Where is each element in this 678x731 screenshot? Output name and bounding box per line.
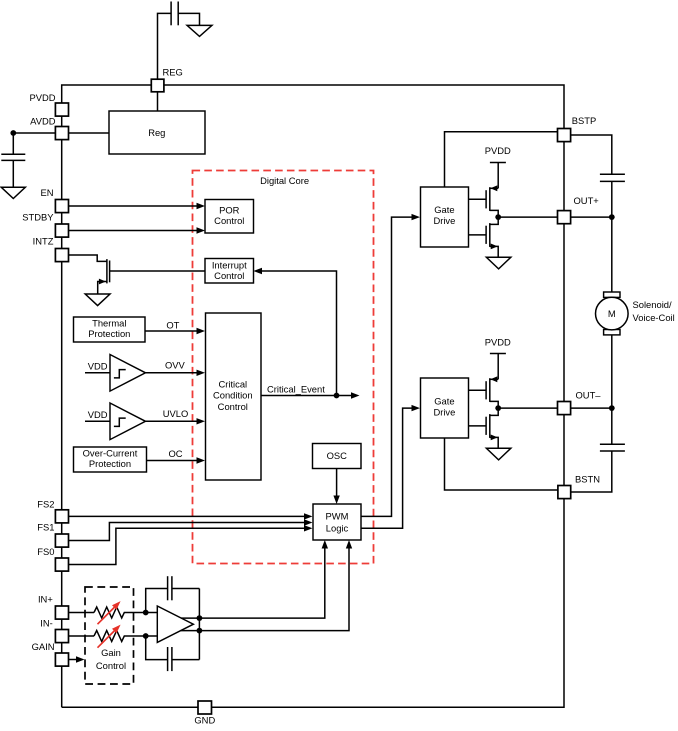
node AVDD bypass junction — [10, 130, 16, 136]
transistor Q1 open-drain INTZ — [69, 255, 110, 294]
block PWM Logic — [313, 504, 361, 540]
pin INTZ — [33, 235, 69, 261]
pin EN — [40, 187, 68, 213]
wire bridge to OUT- pin — [498, 407, 612, 409]
gain control dashed boundary — [85, 587, 134, 684]
svg-text:Critical: Critical — [218, 379, 247, 390]
capacitor C7 bootstrap BSTP to OUT+ — [571, 135, 625, 217]
svg-text:M: M — [608, 308, 616, 319]
svg-text:AVDD: AVDD — [30, 116, 56, 127]
svg-text:BSTN: BSTN — [575, 474, 600, 485]
node Critical_Event junction — [334, 393, 340, 399]
capacitor C3 feedback top — [146, 576, 200, 612]
pin IN+ — [38, 594, 69, 619]
op-amp U5 differential input amp — [146, 606, 194, 642]
ground for high-side bridge — [486, 257, 510, 269]
pin FS2 — [37, 498, 68, 523]
block Reg (regulator) — [109, 111, 205, 154]
svg-text:Gate: Gate — [434, 204, 454, 215]
wire right rail OUT- to BSTN — [563, 415, 565, 486]
pin REG — [151, 67, 183, 92]
ground for C1 — [187, 25, 212, 36]
ground for C2 — [1, 187, 25, 198]
svg-text:BSTP: BSTP — [572, 115, 597, 126]
wire op-amp output bottom to PWM Logic — [181, 540, 353, 631]
svg-text:OUT+: OUT+ — [574, 195, 600, 206]
svg-text:Gain: Gain — [101, 647, 121, 658]
svg-text:EN: EN — [40, 187, 53, 198]
ground for Q1 — [85, 294, 110, 306]
transistor Q5 low-side bottom FET — [469, 408, 499, 448]
wire right rail BSTP to OUT+ — [563, 142, 565, 211]
block Gate Drive (low side, U4) — [421, 378, 469, 438]
node OUT+ bridge junction — [495, 214, 501, 220]
block Interrupt Control — [205, 259, 254, 284]
svg-text:OT: OT — [166, 320, 179, 331]
svg-text:Condition: Condition — [213, 389, 253, 400]
node OUT- bridge junction — [495, 405, 501, 411]
wire PWM Logic to Gate Drive high side — [361, 214, 420, 517]
wire main left rail, top rail and drop to BSTP — [62, 85, 564, 707]
svg-text:Control: Control — [214, 270, 244, 281]
svg-text:POR: POR — [219, 205, 240, 216]
capacitor C8 bootstrap OUT- to BSTN — [571, 408, 625, 492]
wire UVLO to CCC — [146, 408, 206, 424]
svg-text:OVV: OVV — [165, 360, 186, 371]
wire OC Over-Current Protection to CCC — [147, 448, 206, 464]
svg-text:IN-: IN- — [40, 618, 53, 629]
wire Critical_Event from CCC — [261, 384, 360, 399]
svg-text:PWM: PWM — [326, 511, 349, 522]
block Gate Drive (high side, U3) — [421, 187, 469, 247]
digital core dashed boundary — [193, 171, 374, 564]
svg-text:INTZ: INTZ — [33, 235, 54, 246]
svg-text:REG: REG — [163, 67, 183, 78]
pin PVDD — [29, 92, 68, 116]
svg-text:UVLO: UVLO — [163, 408, 189, 419]
svg-text:OSC: OSC — [327, 450, 348, 461]
node output top junction — [197, 615, 203, 621]
capacitor C4 feedback bottom — [146, 636, 200, 671]
motor M solenoid/voice-coil — [596, 217, 675, 408]
wire Interrupt Control to Q1 gate — [110, 270, 205, 272]
pin BSTP — [558, 115, 597, 142]
svg-text:Control: Control — [218, 401, 248, 412]
svg-text:Drive: Drive — [433, 406, 455, 417]
pin BSTN — [558, 474, 600, 499]
svg-text:Critical_Event: Critical_Event — [267, 384, 325, 395]
node OUT+ motor junction — [609, 214, 615, 220]
svg-text:FS0: FS0 — [37, 546, 54, 557]
wire AVDD node to Reg block — [13, 132, 109, 134]
node output bottom junction — [197, 628, 203, 634]
svg-text:Digital Core: Digital Core — [260, 175, 309, 186]
comparator U1 OVV — [85, 355, 146, 392]
wire OSC to PWM Logic — [333, 469, 339, 505]
wire bridge to OUT+ pin — [498, 216, 612, 218]
svg-text:Control: Control — [214, 215, 244, 226]
pin AVDD — [30, 116, 68, 140]
wire STDBY to POR Control — [69, 227, 206, 233]
svg-text:Gate: Gate — [434, 395, 454, 406]
pin FS0 — [37, 546, 68, 571]
svg-text:Voice-Coil: Voice-Coil — [633, 312, 675, 323]
resistor R1 variable (IN+) — [69, 601, 146, 624]
svg-text:Drive: Drive — [433, 215, 455, 226]
svg-text:PVDD: PVDD — [29, 92, 55, 103]
power PVDD supply for low-side bridge — [485, 336, 511, 379]
svg-text:GND: GND — [194, 715, 215, 726]
node IN+ input junction — [143, 610, 149, 616]
wire REG pin to Reg block — [157, 92, 159, 111]
svg-text:Control: Control — [96, 660, 126, 671]
resistor R2 variable (IN-) — [69, 625, 146, 648]
svg-text:Over-Current: Over-Current — [83, 447, 138, 458]
svg-text:FS2: FS2 — [37, 498, 54, 509]
svg-text:OC: OC — [168, 448, 182, 459]
svg-text:STDBY: STDBY — [22, 211, 54, 222]
pin STDBY — [22, 211, 68, 237]
wire FS2 to PWM Logic — [69, 513, 313, 519]
svg-text:PVDD: PVDD — [485, 145, 511, 156]
svg-text:Thermal: Thermal — [92, 317, 126, 328]
comparator U2 UVLO — [85, 403, 146, 440]
wire EN to POR Control — [69, 203, 206, 209]
wire bottom rail from left rail through GND to right rail — [62, 499, 564, 708]
wire Gate Drive high side to BSTP — [445, 132, 558, 187]
pin FS1 — [37, 521, 68, 547]
wire op-amp output top to PWM Logic — [181, 540, 328, 618]
svg-text:VDD: VDD — [88, 409, 108, 420]
svg-text:Protection: Protection — [89, 458, 131, 469]
capacitor C1 at REG pin — [158, 2, 200, 80]
pin OUT+ — [558, 195, 600, 224]
wire OT Thermal Protection to CCC — [145, 320, 205, 335]
svg-text:GAIN: GAIN — [32, 641, 55, 652]
wire right rail OUT+ to OUT- — [563, 224, 565, 402]
transistor Q3 high-side bottom FET — [469, 217, 499, 257]
node IN- input junction — [143, 633, 149, 639]
wire GAIN to Gain Control — [69, 656, 85, 662]
pin GAIN — [32, 641, 69, 666]
svg-text:Protection: Protection — [88, 328, 130, 339]
svg-text:Reg: Reg — [148, 127, 165, 138]
block Critical Condition Control — [206, 313, 262, 480]
wire Gate Drive low side to BSTN — [445, 438, 559, 490]
svg-text:Logic: Logic — [326, 523, 349, 534]
transistor Q4 low-side top FET — [469, 376, 499, 408]
node OUT- motor junction — [609, 405, 615, 411]
wire FS1 to PWM Logic — [69, 519, 313, 540]
svg-text:Interrupt: Interrupt — [212, 260, 247, 271]
transistor Q2 high-side top FET — [469, 185, 499, 217]
pin IN- — [40, 618, 68, 643]
svg-text:IN+: IN+ — [38, 594, 53, 605]
wire feedback vertical — [198, 589, 200, 660]
block POR Control — [205, 200, 254, 234]
block OSC — [313, 444, 362, 469]
svg-text:FS1: FS1 — [37, 521, 54, 532]
ground for low-side bridge — [486, 448, 510, 460]
svg-text:Solenoid/: Solenoid/ — [633, 299, 672, 310]
wire PWM Logic to Gate Drive low side — [361, 405, 420, 528]
wire Critical_Event feedback to Interrupt Control — [254, 268, 337, 396]
power PVDD supply for high-side bridge — [485, 145, 511, 188]
svg-text:VDD: VDD — [88, 360, 108, 371]
svg-text:PVDD: PVDD — [485, 336, 511, 347]
pin OUT- — [558, 390, 602, 415]
wire FS0 to PWM Logic — [69, 525, 313, 564]
capacitor C2 on AVDD — [1, 133, 25, 187]
svg-text:OUT–: OUT– — [576, 390, 602, 401]
wire OVV to CCC — [146, 360, 206, 376]
block Thermal Protection — [74, 317, 146, 342]
pin GND — [194, 701, 215, 726]
block Over-Current Protection — [74, 447, 147, 472]
